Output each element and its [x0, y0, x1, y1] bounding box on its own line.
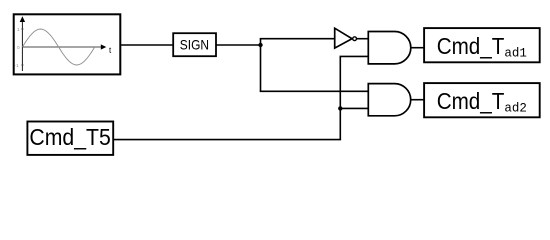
wire to AND1 input 2	[340, 55, 369, 57]
wire node A vertical	[260, 39, 262, 92]
node B junction	[338, 106, 342, 110]
wire to inverter input	[260, 38, 335, 40]
AND gate 1	[368, 32, 411, 64]
x-axis	[22, 46, 102, 48]
node A junction	[258, 43, 262, 47]
svg-text:0: 0	[17, 45, 20, 51]
svg-text:1: 1	[17, 27, 20, 33]
Cmd_Tad2 block	[424, 83, 540, 117]
tick -1	[21, 64, 23, 66]
svg-text:SIGN: SIGN	[180, 36, 209, 52]
svg-text:Cmd_T5: Cmd_T5	[29, 124, 110, 150]
y-axis	[21, 21, 23, 72]
scope block (sine source)	[14, 14, 121, 74]
wire Cmd_T5 output	[113, 139, 341, 141]
wire to AND2 input 1	[260, 90, 369, 92]
Cmd_T5 vertical wire	[339, 56, 341, 139]
wire AND2 to Cmd_Tad2	[411, 99, 425, 101]
Cmd_T5 block	[27, 122, 113, 155]
inverter U1	[335, 28, 352, 48]
AND gate 2	[368, 84, 410, 116]
wire to AND2 input 2	[340, 107, 368, 109]
wire SIGN to node A	[216, 44, 261, 46]
sine curve	[22, 29, 94, 65]
wire AND1 to Cmd_Tad1	[411, 47, 424, 49]
x-axis arrowhead	[101, 44, 107, 49]
y-axis arrowhead	[20, 16, 25, 22]
tick 1	[21, 28, 23, 30]
inverter bubble	[353, 37, 357, 41]
SIGN block	[173, 33, 216, 56]
wire inverter to AND1	[357, 38, 369, 40]
wire scope to SIGN	[121, 44, 173, 46]
svg-text:-1: -1	[14, 63, 19, 69]
Cmd_Tad1 block	[424, 28, 540, 62]
